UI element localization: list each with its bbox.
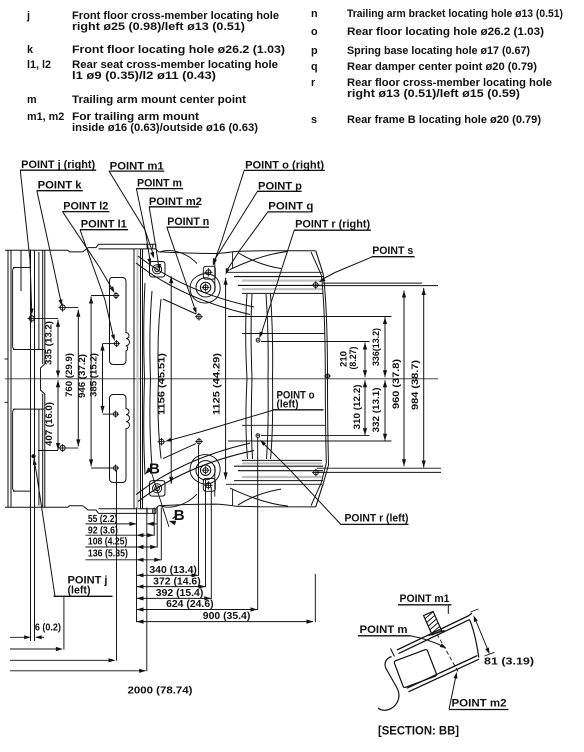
lower rail line5 bbox=[234, 480, 323, 482]
svg-text:336(13.2): 336(13.2) bbox=[371, 328, 381, 366]
dim 960 line bbox=[402, 291, 406, 467]
front floor edge notch bbox=[41, 364, 45, 394]
body left edge inner vertical bbox=[10, 250, 12, 507]
svg-text:inside ø16 (0.63)/outside ø16: inside ø16 (0.63)/outside ø16 (0.63) bbox=[72, 122, 258, 134]
front floor edge x44.8 upper bbox=[44, 250, 46, 364]
inset dim 81 line bbox=[475, 618, 489, 653]
point n mirror hole bbox=[195, 438, 203, 446]
lower rail bottom line bbox=[242, 459, 322, 461]
body top edge left bbox=[5, 250, 83, 252]
dim 310 line bbox=[363, 380, 367, 435]
dim 2000 row bbox=[10, 670, 145, 672]
dim 55 row bbox=[86, 514, 137, 526]
svg-text:q: q bbox=[311, 61, 318, 73]
dim 946 line bbox=[89, 297, 93, 467]
inset m1 stud bbox=[424, 611, 442, 634]
upper rail top line bbox=[234, 276, 323, 278]
svg-text:Trailing arm bracket locating: Trailing arm bracket locating hole ø13 (… bbox=[347, 8, 563, 20]
datum vertical x116.5 bbox=[116, 470, 118, 661]
lower rail line4 bbox=[238, 470, 323, 472]
svg-text:407 (16.0): 407 (16.0) bbox=[44, 402, 54, 446]
extension row to k datum bbox=[10, 648, 62, 650]
point r (right) hole bbox=[256, 338, 260, 342]
dim 92 row bbox=[86, 525, 155, 537]
ref vertical x211.3 (392) bbox=[210, 487, 212, 599]
left edge tick y402 bbox=[5, 401, 9, 403]
ref vertical x198.5 (340) bbox=[198, 445, 200, 576]
inset bottom sheet inner bbox=[407, 656, 477, 689]
svg-text:r: r bbox=[311, 77, 316, 89]
upper rail bottom line bbox=[242, 292, 323, 294]
rear seat cross-member upper plate bbox=[110, 278, 130, 365]
point m mirror rings bbox=[153, 484, 162, 493]
dim 385 ref tick l1 mirror bbox=[103, 413, 113, 415]
point k hole bbox=[58, 303, 66, 311]
bottom plateau end cell bbox=[152, 509, 154, 514]
svg-text:55 (2.2): 55 (2.2) bbox=[88, 514, 118, 525]
dim 6 marks bbox=[10, 636, 30, 638]
lower rail gray band bbox=[242, 462, 322, 464]
point m mount rings bbox=[153, 265, 162, 274]
body bottom corner slant bbox=[316, 484, 324, 507]
left panel seam y491.1 bbox=[13, 490, 31, 492]
label POINT o (left) + leader bbox=[165, 390, 323, 442]
wheelhouse inner line b mirror bbox=[150, 379, 152, 467]
upper rail gray band2 bbox=[242, 288, 322, 290]
point j (right) hole bbox=[28, 314, 36, 322]
dim 946 ref tick l2 mirror bbox=[91, 467, 113, 469]
slope to rail mirror bbox=[238, 489, 281, 505]
svg-text:Front floor locating hole ø26.: Front floor locating hole ø26.2 (1.03) bbox=[72, 44, 285, 56]
bracket edge vertical x232.6 upper bbox=[232, 252, 234, 268]
svg-text:372 (14.6): 372 (14.6) bbox=[153, 576, 201, 587]
svg-text:(left): (left) bbox=[277, 399, 299, 411]
svg-text:POINT r (right): POINT r (right) bbox=[295, 219, 370, 231]
svg-text:6 (0.2): 6 (0.2) bbox=[35, 623, 61, 634]
extension row to l datum bbox=[10, 659, 114, 661]
svg-text:946 (37.2): 946 (37.2) bbox=[77, 354, 87, 398]
svg-text:right ø25 (0.98)/left ø13 (0.5: right ø25 (0.98)/left ø13 (0.51) bbox=[72, 21, 245, 33]
arm diagonal lower bbox=[163, 444, 196, 459]
label POINT l2 + leader bbox=[62, 201, 114, 294]
point l1 hole bbox=[113, 340, 120, 347]
point n hole bbox=[195, 313, 203, 321]
svg-text:l1, l2: l1, l2 bbox=[27, 59, 51, 71]
svg-text:m1, m2: m1, m2 bbox=[27, 111, 64, 123]
label POINT j (left) + leader bbox=[33, 459, 113, 597]
wheelhouse inner line b bbox=[150, 291, 152, 379]
label POINT r (right) + leader bbox=[259, 219, 371, 339]
wheelhouse inner line c bbox=[158, 299, 161, 379]
point s hole bbox=[312, 281, 320, 289]
body left edge outer vertical bbox=[7, 250, 9, 507]
bottom ref line b (s row) bbox=[317, 471, 441, 473]
label POINT m + leader bbox=[136, 178, 183, 265]
floor seam y425.3 bbox=[242, 424, 325, 426]
lower rail mid line bbox=[234, 465, 323, 467]
cross-member channel line b bbox=[140, 249, 142, 509]
svg-text:POINT q: POINT q bbox=[268, 201, 313, 213]
label POINT k + leader bbox=[37, 179, 83, 306]
inset top sheet outer bbox=[397, 613, 472, 650]
svg-text:POINT l2: POINT l2 bbox=[63, 201, 108, 213]
dim 335 ref tick j bbox=[35, 317, 58, 319]
dim 624 row bbox=[137, 599, 258, 612]
cross-member channel line a bbox=[133, 249, 135, 509]
svg-text:k: k bbox=[27, 44, 34, 56]
dim 1156 line bbox=[169, 276, 173, 484]
svg-text:335 (13.2): 335 (13.2) bbox=[44, 321, 54, 365]
label POINT q + leader bbox=[226, 201, 314, 275]
upper rail mid line bbox=[238, 284, 323, 286]
dim 760 ref tick k mirror bbox=[66, 447, 78, 449]
trailing arm band upper b bbox=[136, 263, 250, 315]
body rear top corner bbox=[316, 251, 324, 274]
body top edge right bbox=[236, 250, 316, 253]
point l1 mirror hole bbox=[112, 411, 119, 418]
svg-text:310 (12.2): 310 (12.2) bbox=[352, 385, 362, 430]
dim 210 ref line bbox=[261, 341, 370, 343]
trailing arm band upper a bbox=[138, 256, 254, 307]
inset stud base flange bbox=[429, 631, 445, 636]
inset right web bbox=[470, 620, 479, 658]
dim 335 line bbox=[56, 320, 60, 378]
spring seat inner curve bbox=[160, 250, 197, 263]
label POINT j (right) + leader bbox=[20, 159, 96, 315]
inset label POINT m bbox=[358, 624, 447, 648]
body bottom edge right bbox=[236, 505, 316, 508]
ref vertical x161.3 (136) bbox=[160, 508, 162, 561]
ref vertical x257.7 (624) bbox=[257, 438, 259, 610]
left seam y349.5 bbox=[13, 349, 44, 351]
label POINT s + leader bbox=[319, 245, 415, 282]
bottom ref line a bbox=[317, 467, 441, 469]
svg-text:s: s bbox=[311, 114, 317, 126]
point r (left) hole bbox=[256, 434, 260, 438]
svg-text:o: o bbox=[311, 26, 318, 38]
dim 984 line bbox=[422, 288, 426, 468]
top plateau box bbox=[99, 244, 156, 249]
svg-text:POINT m: POINT m bbox=[137, 178, 182, 190]
svg-text:m: m bbox=[27, 94, 37, 106]
svg-text:POINT m1: POINT m1 bbox=[400, 593, 450, 605]
section cut line bbox=[150, 468, 169, 527]
svg-text:POINT s: POINT s bbox=[372, 245, 413, 257]
svg-text:POINT k: POINT k bbox=[38, 179, 83, 191]
floor channel wavy c bbox=[266, 294, 268, 459]
bottom step1 bbox=[83, 506, 99, 514]
dim 372 row bbox=[137, 576, 206, 588]
m mount bracket mirror bbox=[150, 481, 166, 497]
lower rail flange line bbox=[226, 483, 322, 485]
inset dashed axis bbox=[437, 634, 458, 672]
svg-text:340 (13.4): 340 (13.4) bbox=[149, 565, 197, 576]
trailing arm band lower b bbox=[136, 443, 250, 495]
svg-text:Spring base locating hole ø17: Spring base locating hole ø17 (0.67) bbox=[347, 45, 530, 57]
top plateau divider bbox=[146, 244, 148, 249]
svg-text:624 (24.6): 624 (24.6) bbox=[166, 599, 214, 610]
datum vertical x136.5 bbox=[136, 508, 138, 623]
dim 407 line bbox=[56, 380, 60, 450]
body rear edge bbox=[323, 274, 328, 484]
arm diagonal upper bbox=[163, 299, 196, 314]
ref vertical x157.2 (108) bbox=[156, 508, 158, 548]
dim 336 line bbox=[383, 317, 387, 377]
ref vertical x146.8 (55 + 2000) bbox=[146, 508, 148, 672]
dim 336 ref line bbox=[330, 316, 392, 318]
svg-text:81 (3.19): 81 (3.19) bbox=[484, 657, 534, 668]
label POINT n + leader bbox=[167, 216, 210, 314]
floor channel wavy b bbox=[251, 294, 252, 459]
point l2 mirror hole bbox=[112, 464, 119, 471]
dim 340 row bbox=[137, 565, 199, 577]
top step1 bbox=[83, 244, 99, 252]
label POINT m1 + leader bbox=[109, 160, 165, 258]
point o (right) hole bbox=[204, 268, 212, 276]
dim 136 row bbox=[86, 548, 162, 562]
bumper bracket curve mirror bbox=[230, 488, 288, 506]
point o right mirror hole bbox=[204, 481, 212, 489]
left panel bracket lower bbox=[13, 409, 15, 491]
svg-text:332 (13.1): 332 (13.1) bbox=[371, 388, 381, 433]
rear seat cross-member lower plate bbox=[110, 395, 130, 483]
svg-text:1125 (44.29): 1125 (44.29) bbox=[211, 353, 221, 415]
cross-member channel line gray bbox=[137, 249, 139, 509]
svg-text:POINT o (right): POINT o (right) bbox=[245, 159, 324, 171]
upper rail gray band bbox=[242, 280, 322, 282]
svg-text:1156 (45.51): 1156 (45.51) bbox=[157, 353, 167, 415]
inset label POINT m2 bbox=[449, 672, 509, 710]
p bracket plate bbox=[203, 266, 215, 279]
inset label POINT m1 bbox=[398, 593, 452, 614]
dim 760 line bbox=[76, 310, 80, 447]
body bottom edge mid bbox=[156, 504, 236, 509]
point j (left) dot bbox=[31, 454, 35, 458]
m mount bracket bbox=[150, 262, 166, 278]
point l2 hole bbox=[112, 292, 119, 299]
cross row y441 bbox=[228, 440, 392, 442]
svg-text:(left): (left) bbox=[68, 585, 91, 597]
svg-text:108 (4.25): 108 (4.25) bbox=[88, 537, 128, 548]
body top edge mid bbox=[156, 249, 236, 254]
point k mirror hole bbox=[58, 444, 66, 452]
dim 392 row bbox=[137, 588, 212, 600]
dim 310 ref line bbox=[261, 435, 370, 437]
svg-text:Rear damper center point ø20 (: Rear damper center point ø20 (0.79) bbox=[347, 61, 537, 73]
bumper bracket curve bbox=[230, 252, 288, 270]
left panel seam y267.5 bbox=[13, 267, 31, 269]
body bottom edge left bbox=[5, 506, 83, 508]
svg-text:n: n bbox=[311, 8, 318, 20]
svg-text:right ø13 (0.51)/left ø15 (0.5: right ø13 (0.51)/left ø15 (0.59) bbox=[347, 88, 520, 100]
spring seat inner curve mirror bbox=[160, 494, 197, 507]
svg-text:392 (15.4): 392 (15.4) bbox=[156, 588, 204, 599]
svg-text:960 (37.8): 960 (37.8) bbox=[391, 359, 401, 409]
point s mirror hole bbox=[312, 469, 320, 477]
svg-text:j: j bbox=[26, 10, 30, 22]
body left panel line x30.5 bbox=[30, 250, 32, 641]
dim 946 ref tick l2 bbox=[91, 295, 113, 297]
section arrow B lower bbox=[173, 515, 179, 519]
svg-text:POINT m2: POINT m2 bbox=[452, 698, 507, 710]
wheelhouse inner line c mirror bbox=[158, 379, 161, 459]
svg-text:900 (35.4): 900 (35.4) bbox=[203, 611, 251, 622]
p bracket plate mirror bbox=[203, 478, 215, 491]
cross-member channel line c bbox=[142, 249, 144, 509]
bottom plateau divider bbox=[146, 509, 148, 514]
svg-text:760 (29.9): 760 (29.9) bbox=[64, 353, 74, 397]
dim 210 line bbox=[363, 343, 367, 378]
inset flange box bbox=[394, 650, 436, 688]
left panel bracket upper bbox=[13, 268, 15, 350]
ref vertical x205.5 (372) bbox=[205, 480, 207, 588]
svg-text:136 (5.35): 136 (5.35) bbox=[88, 548, 128, 559]
label POINT l1 + leader bbox=[80, 219, 128, 342]
body rear inner edge bbox=[321, 275, 326, 483]
dim 900 row bbox=[137, 611, 314, 624]
upper rail flange line bbox=[226, 271, 322, 273]
inset left bracket hook bbox=[378, 657, 399, 711]
body left vertical x21 bbox=[20, 250, 22, 291]
label POINT o (right) + leader bbox=[213, 159, 325, 266]
vehicle centerline bbox=[5, 378, 438, 380]
front floor edge x42.7 lower bbox=[42, 394, 44, 507]
dim 385 line bbox=[100, 344, 104, 413]
rear panel center hole bbox=[324, 373, 330, 379]
floor channel wavy d bbox=[271, 294, 273, 459]
cross row y316.5 bbox=[228, 316, 392, 318]
svg-text:Rear floor locating hole ø26.2: Rear floor locating hole ø26.2 (1.03) bbox=[347, 26, 544, 38]
dim 385 ref tick l1 bbox=[103, 343, 114, 345]
trailing arm band lower a bbox=[138, 451, 254, 502]
wheelhouse inner line a mirror bbox=[144, 379, 145, 475]
svg-text:POINT l1: POINT l1 bbox=[81, 219, 127, 231]
point o (left) hole bbox=[158, 438, 166, 446]
top ref line b (s row) bbox=[317, 285, 438, 287]
svg-text:(8.27): (8.27) bbox=[348, 347, 358, 370]
front floor edge x42.7 upper bbox=[42, 250, 44, 364]
dim 1125 line bbox=[224, 278, 228, 480]
label POINT p + leader bbox=[213, 181, 302, 265]
svg-text:2000 (78.74): 2000 (78.74) bbox=[128, 685, 193, 697]
wheelhouse inner line a bbox=[144, 283, 145, 379]
point q damper rings bbox=[196, 278, 215, 297]
dim 108 row bbox=[86, 537, 158, 549]
spring seat outline bbox=[190, 274, 220, 303]
spring seat outline mirror bbox=[190, 455, 220, 484]
svg-text:POINT r (left): POINT r (left) bbox=[345, 513, 409, 525]
lower rail gray band2 bbox=[242, 476, 322, 478]
svg-text:Trailing arm mount center poin: Trailing arm mount center point bbox=[72, 94, 246, 106]
front floor inner vertical x38.9 lower bbox=[38, 409, 40, 505]
dim 332 ref line bbox=[330, 440, 392, 442]
svg-text:p: p bbox=[311, 45, 318, 57]
svg-text:385 (15.2): 385 (15.2) bbox=[89, 353, 99, 397]
top plateau end cell bbox=[152, 244, 154, 249]
label POINT r (left) + leader bbox=[260, 440, 409, 525]
top ref line a bbox=[323, 282, 422, 284]
floor channel wavy a bbox=[246, 294, 248, 459]
svg-text:POINT n: POINT n bbox=[167, 216, 209, 228]
front floor edge x44.8 lower bbox=[44, 394, 46, 507]
dim 407 ref tick bbox=[38, 450, 58, 452]
ref vertical x154.2 (92) bbox=[153, 508, 155, 536]
svg-text:984 (38.7): 984 (38.7) bbox=[410, 360, 420, 410]
label POINT m2 + leader bbox=[149, 196, 202, 271]
slope from plateau to rail bbox=[238, 253, 281, 269]
inset box upstand tick bbox=[391, 649, 395, 657]
body left panel line x34.5 bbox=[34, 250, 36, 641]
inset bottom sheet outer bbox=[409, 659, 480, 692]
floor seam y333.5 bbox=[242, 333, 325, 335]
svg-text:POINT j (right): POINT j (right) bbox=[21, 159, 95, 171]
left edge tick y359 bbox=[5, 358, 9, 360]
dim 332 line bbox=[383, 380, 387, 440]
inset top sheet inner bbox=[399, 620, 470, 654]
bottom plateau box bbox=[99, 509, 156, 514]
left seam y409.1 bbox=[13, 408, 44, 410]
svg-text:[SECTION: BB]: [SECTION: BB] bbox=[378, 724, 459, 738]
dim 55 second arrow bbox=[147, 523, 158, 525]
svg-text:Rear frame B locating hole ø20: Rear frame B locating hole ø20 (0.79) bbox=[347, 114, 541, 126]
section arrow B upper bbox=[148, 467, 153, 472]
point q mirror damper rings bbox=[196, 461, 215, 480]
datum vertical from j-left underline bbox=[63, 597, 65, 650]
svg-text:POINT m: POINT m bbox=[360, 624, 408, 636]
dim 760 ref tick k bbox=[66, 307, 78, 309]
svg-text:l1 ø9 (0.35)/l2 ø11 (0.43): l1 ø9 (0.35)/l2 ø11 (0.43) bbox=[72, 70, 216, 82]
ref vertical x315.3 (900) bbox=[314, 574, 316, 622]
bracket edge vertical x232.6 lower bbox=[232, 490, 234, 506]
front floor inner vertical x38.9 upper bbox=[38, 252, 40, 350]
